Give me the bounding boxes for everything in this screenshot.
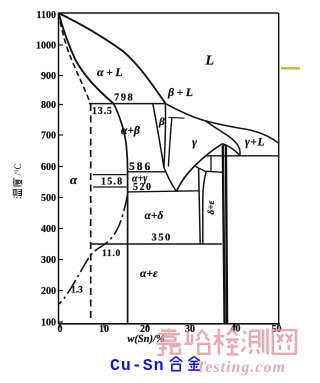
svg-text:L: L	[205, 54, 215, 69]
beta wedge right	[164, 104, 166, 167]
svg-text:400: 400	[41, 224, 56, 235]
y tick labels	[36, 10, 56, 329]
gamma+L lower curve	[206, 121, 240, 156]
x ticks	[60, 324, 278, 328]
svg-text:800: 800	[41, 100, 56, 111]
520 line	[128, 191, 199, 192]
x-axis	[58, 323, 280, 325]
epsilon right	[226, 146, 227, 324]
dome right slope	[223, 144, 240, 156]
svg-text:γ+L: γ+L	[245, 137, 265, 149]
15.8 box lines	[93, 174, 127, 176]
liquidus alpha	[59, 13, 166, 104]
svg-text:100: 100	[41, 318, 56, 329]
svg-text:α+β: α+β	[121, 125, 140, 137]
dashed vertical at 7.3%	[90, 104, 92, 322]
right border	[278, 13, 280, 324]
svg-text:200: 200	[41, 286, 56, 297]
svg-text:1.3: 1.3	[71, 286, 83, 296]
svg-text:600: 600	[41, 162, 56, 173]
epsilon left	[223, 146, 225, 324]
sliver vertical	[210, 156, 212, 172]
svg-text:α: α	[70, 172, 78, 187]
x tick labels	[58, 324, 282, 336]
svg-text:/°C: /°C	[13, 163, 23, 175]
top border	[59, 12, 279, 14]
svg-text:11.0: 11.0	[102, 249, 121, 259]
beta wedge left	[153, 104, 164, 167]
svg-text:500: 500	[41, 193, 56, 204]
svg-text:Cu-Sn: Cu-Sn	[110, 356, 165, 375]
svg-text:1100: 1100	[37, 10, 56, 21]
755 tie line	[168, 116, 184, 119]
640 line	[205, 155, 278, 157]
svg-text:700: 700	[41, 131, 56, 142]
svg-text:δ+ε: δ+ε	[207, 200, 217, 214]
dashed nonequilibrium solidus	[59, 13, 91, 104]
delta left	[199, 168, 201, 243]
svg-text:30: 30	[185, 324, 195, 335]
svg-text:798: 798	[114, 93, 134, 104]
svg-text:α+δ: α+δ	[145, 210, 164, 222]
delta right	[203, 172, 206, 244]
svg-text:γ: γ	[192, 135, 197, 149]
svg-text:Testing.com: Testing.com	[196, 359, 286, 376]
alpha solvus dash-dot	[59, 196, 128, 305]
svg-text:13.5: 13.5	[92, 106, 113, 117]
liquidus 2	[166, 104, 279, 144]
gamma arc V to apex	[177, 144, 223, 192]
svg-text:900: 900	[41, 71, 56, 82]
epsilon apex cap	[223, 145, 226, 147]
svg-text:β: β	[158, 116, 165, 128]
solidus alpha	[59, 13, 114, 104]
gamma left lower to V	[164, 167, 177, 191]
svg-text:350: 350	[152, 233, 172, 244]
y-axis	[58, 13, 60, 324]
svg-text:520: 520	[133, 182, 153, 193]
350 line	[90, 243, 222, 245]
svg-text:α + L: α + L	[97, 65, 123, 79]
yellow dash artifact	[281, 67, 300, 69]
H2 slant 586-level right	[195, 166, 223, 172]
gamma left upper	[168, 118, 172, 167]
svg-text:586: 586	[129, 161, 152, 173]
svg-text:0: 0	[58, 324, 63, 335]
y ticks	[59, 15, 64, 323]
svg-text:15.8: 15.8	[101, 177, 123, 188]
svg-text:10: 10	[99, 324, 109, 335]
798 peritectic line	[89, 103, 166, 105]
svg-text:300: 300	[41, 255, 56, 266]
axis title y: 温度/°C rotated	[13, 163, 23, 198]
svg-text:α+ε: α+ε	[140, 268, 158, 280]
586 line	[128, 171, 166, 173]
alpha/(alpha+beta) boundary + vertical	[114, 104, 128, 324]
svg-text:β + L: β + L	[167, 85, 193, 99]
svg-text:1000: 1000	[36, 41, 56, 52]
